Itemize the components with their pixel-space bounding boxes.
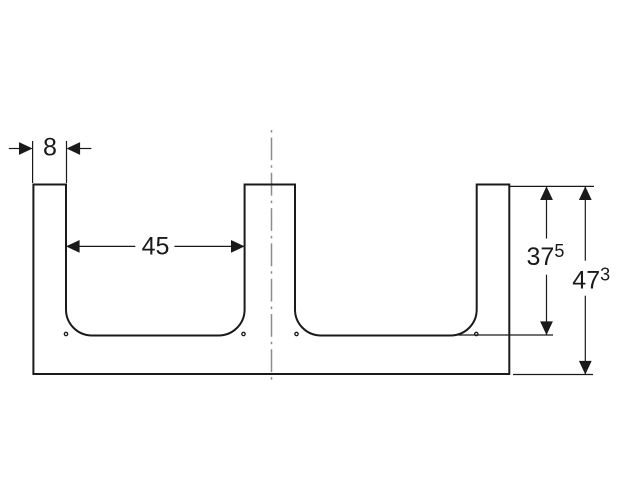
extension line bottom right <box>513 374 593 376</box>
dim 8: extension line right <box>66 141 68 183</box>
extension line mid right (U-bottom level) <box>458 334 553 336</box>
svg-text:8: 8 <box>43 134 57 162</box>
hole right <box>475 332 478 335</box>
dim 8: left arrow <box>9 148 20 150</box>
main outline: double-U washbasin cabinet front profile <box>33 185 509 375</box>
dim 45: right arrow <box>231 240 245 253</box>
dim 8: right arrow <box>79 148 91 150</box>
hole left <box>64 332 67 335</box>
hole mid-left <box>242 332 245 335</box>
dim 37.5: bottom arrow <box>540 321 553 335</box>
svg-text:45: 45 <box>142 233 170 261</box>
dim 37.5: top arrow <box>540 186 553 200</box>
dim 47.3: vertical line with gap <box>584 186 586 260</box>
centerline (dash-dot) <box>271 130 273 380</box>
dim 37.5: vertical line with gap <box>546 186 548 238</box>
dim 45: line with gap <box>66 245 135 247</box>
hole mid-right <box>295 332 298 335</box>
extension line top right <box>510 185 594 187</box>
dim 47.3: top arrow <box>579 186 592 200</box>
dim 45: left arrow <box>66 240 80 253</box>
dim 8: extension line left <box>32 141 34 183</box>
dim 47.3: bottom arrow <box>579 361 592 375</box>
